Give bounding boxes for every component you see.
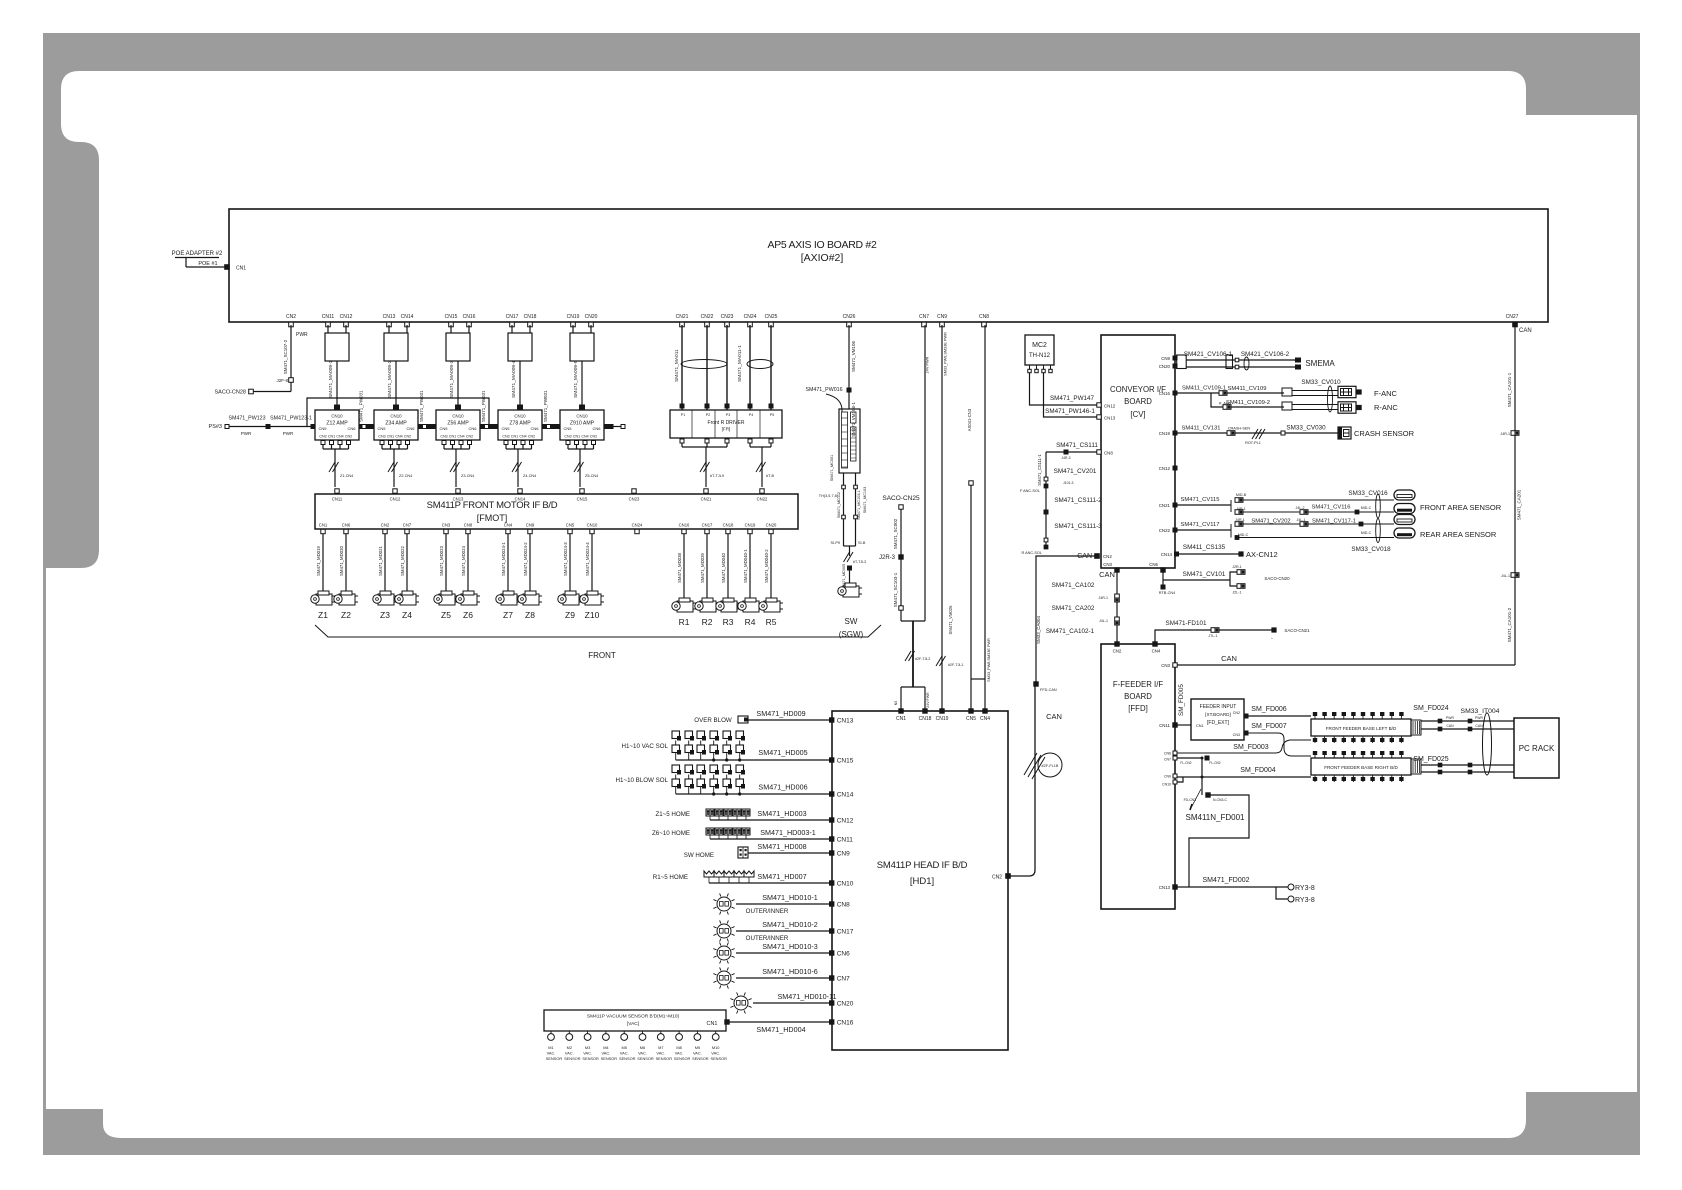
pin CN11 (FFD right)	[1173, 723, 1177, 727]
sensor bar front upper	[1394, 490, 1415, 500]
svg-text:J7L-1: J7L-1	[1209, 634, 1218, 638]
svg-text:SM471_HD010-11: SM471_HD010-11	[778, 992, 837, 1001]
svg-text:CN13: CN13	[1159, 885, 1171, 890]
svg-text:CN3: CN3	[502, 435, 509, 439]
motor Z9	[558, 591, 582, 605]
svg-text:P3: P3	[726, 413, 730, 417]
svg-text:F-FEEDER I/F: F-FEEDER I/F	[1113, 680, 1163, 689]
pin CN3 (FD_EXT)	[1244, 731, 1248, 735]
svg-text:CN26: CN26	[843, 314, 856, 320]
wire AXIO CN pair to AMP4 (SM471_MA009-4)	[511, 325, 513, 333]
svg-text:M8: M8	[676, 1045, 681, 1050]
svg-text:CN2: CN2	[466, 435, 473, 439]
pin CN6 of Z34 AMP	[418, 425, 422, 429]
pin CN19 (AXIO bottom)	[571, 322, 576, 327]
svg-text:Z3-CN4: Z3-CN4	[461, 474, 474, 478]
svg-text:CN2: CN2	[1113, 649, 1122, 654]
svg-text:SM471_PW147: SM471_PW147	[1050, 395, 1095, 402]
wire AXIO CN pair to AMP1 (SM471_MA009-1)	[327, 325, 329, 333]
svg-text:OVER BLOW: OVER BLOW	[694, 717, 732, 724]
wire SM471_HD008 to CN9	[748, 852, 830, 854]
svg-text:SW: SW	[845, 617, 858, 626]
svg-text:CN22: CN22	[701, 314, 714, 320]
svg-text:VAC.: VAC.	[638, 1051, 647, 1056]
svg-text:CN8: CN8	[979, 314, 989, 320]
svg-text:SM421_CV106-1: SM421_CV106-1	[1184, 351, 1233, 358]
pin CN27 (AXIO bottom, CAN)	[1513, 322, 1518, 327]
svg-text:[FR]: [FR]	[722, 427, 731, 432]
svg-text:FFD-CAN: FFD-CAN	[1040, 688, 1057, 692]
svg-text:P1: P1	[681, 413, 685, 417]
svg-text:SM33_CA004: SM33_CA004	[1036, 616, 1041, 645]
svg-text:VAC.: VAC.	[656, 1051, 665, 1056]
svg-text:SM471_CS111-1: SM471_CS111-1	[1037, 454, 1042, 486]
svg-text:VAC.: VAC.	[693, 1051, 702, 1056]
svg-text:SM_FD007: SM_FD007	[1251, 723, 1287, 730]
pin CN12 (HD1 left)	[830, 818, 834, 822]
pin CN13 (AXIO bottom)	[387, 322, 392, 327]
svg-text:SM471_HD010-1: SM471_HD010-1	[762, 893, 818, 902]
svg-text:SM471_PW031: SM471_PW031	[543, 390, 548, 422]
svg-text:CRASH SENSOR: CRASH SENSOR	[1354, 429, 1415, 438]
pin CN12 (AXIO bottom)	[344, 322, 349, 327]
pin CN13 (FFD left-bottom)	[1173, 885, 1177, 889]
svg-text:CN6: CN6	[468, 426, 477, 431]
svg-text:SENSOR: SENSOR	[619, 1056, 636, 1061]
svg-text:SI-P9: SI-P9	[831, 541, 841, 545]
svg-text:SM471_MD024-2: SM471_MD024-2	[523, 542, 528, 576]
svg-text:SM471_CA201: SM471_CA201	[1517, 489, 1522, 520]
svg-text:F-ANC: F-ANC	[1374, 389, 1397, 398]
wire FMOT to motor Z1 (SM471_MD019)	[322, 534, 324, 591]
svg-text:SM471_MD021: SM471_MD021	[378, 546, 383, 576]
svg-text:SM33_PW9,SM33E PWR: SM33_PW9,SM33E PWR	[944, 332, 948, 376]
wire FR outputs to FMOT CN21	[680, 439, 684, 443]
svg-text:SM471_MD112: SM471_MD112	[837, 492, 841, 518]
svg-text:SM471_PW031: SM471_PW031	[419, 390, 424, 422]
svg-text:SM471_SC107-2: SM471_SC107-2	[283, 339, 288, 374]
svg-text:Z10: Z10	[585, 610, 600, 620]
svg-text:CONVEYOR I/F: CONVEYOR I/F	[1110, 385, 1166, 394]
svg-text:F ANC-SOL: F ANC-SOL	[1020, 489, 1040, 493]
pin CN8 (AXIO bottom)	[982, 322, 987, 327]
pin CN26 (AXIO bottom)	[847, 322, 852, 327]
svg-text:M4: M4	[603, 1045, 609, 1050]
amplifier Z34 AMP (U2)	[394, 405, 399, 410]
svg-text:SM471_CA102-1: SM471_CA102-1	[1046, 628, 1095, 635]
board FFD : F-FEEDER I/F BOARD	[1101, 644, 1175, 909]
pin CN21 (AXIO bottom)	[680, 322, 685, 327]
svg-text:J4L-1: J4L-1	[1501, 574, 1510, 578]
svg-text:SM33_PW8,SM33E PWR: SM33_PW8,SM33E PWR	[987, 638, 991, 682]
svg-text:J4L-1: J4L-1	[1099, 619, 1108, 623]
svg-text:SM_FD024: SM_FD024	[1413, 705, 1449, 712]
pin CN9 (HD1 left)	[830, 851, 834, 855]
svg-text:CN14: CN14	[1161, 552, 1173, 557]
connector J4R-1 (CAN)	[1511, 431, 1519, 436]
svg-text:FRONT FEEDER BASE LEFT B/D: FRONT FEEDER BASE LEFT B/D	[1326, 726, 1397, 731]
pin CN16 (HD1 left)	[830, 1020, 834, 1024]
pin CN23 (FMOT top)	[632, 489, 636, 493]
svg-text:CN22: CN22	[1159, 528, 1171, 533]
svg-text:J2L-1: J2L-1	[1233, 591, 1242, 595]
pin CN2 (CV left, CAN)	[1095, 554, 1100, 559]
pin P3 Front R DRIVER	[725, 404, 729, 408]
wire CAN vertical (right)	[1514, 325, 1516, 665]
pin CN14 (AXIO bottom)	[405, 322, 410, 327]
pins CN6/CN7 (FFD right)	[1173, 751, 1177, 755]
motor R3	[716, 598, 740, 612]
svg-text:SM471_MD022: SM471_MD022	[400, 546, 405, 576]
svg-text:N5: N5	[894, 701, 898, 706]
svg-text:CN17: CN17	[837, 929, 854, 936]
board CV : CONVEYOR I/F BOARD	[1101, 335, 1175, 568]
svg-text:CN13: CN13	[453, 497, 464, 502]
svg-text:CN2: CN2	[1103, 554, 1112, 559]
svg-text:SM471_VM106: SM471_VM106	[851, 340, 856, 372]
svg-text:SM471-FD101: SM471-FD101	[1166, 620, 1207, 627]
svg-text:CN2: CN2	[345, 435, 352, 439]
svg-text:SM471_MD024-1: SM471_MD024-1	[501, 542, 506, 576]
svg-text:CN24: CN24	[744, 314, 757, 320]
svg-text:Z1: Z1	[318, 610, 328, 620]
svg-text:CAN: CAN	[1446, 724, 1454, 728]
svg-text:P2: P2	[706, 413, 710, 417]
svg-text:FRONT: FRONT	[588, 651, 616, 660]
svg-text:J2F-8: J2F-8	[276, 378, 288, 383]
pin CN1 (AXIO left)	[225, 265, 230, 270]
svg-text:SENSOR: SENSOR	[710, 1056, 727, 1061]
wire FMOT to motor Z9 (SM471_MD024-3)	[569, 534, 571, 591]
svg-text:CN1: CN1	[573, 435, 580, 439]
pin CN15 (FMOT top)	[580, 489, 584, 493]
pin CN18 (AXIO bottom)	[528, 322, 533, 327]
svg-text:VAC.: VAC.	[711, 1051, 720, 1056]
wire POE to CN1	[185, 258, 187, 268]
bottom pin squares of Z12 AMP	[321, 441, 325, 445]
svg-text:CN7: CN7	[1164, 758, 1171, 762]
wire SM_FD003 (crossing hop)	[1177, 740, 1311, 753]
svg-text:CN3: CN3	[319, 435, 326, 439]
pin CN12 (FMOT top)	[393, 489, 397, 493]
svg-text:J101-3: J101-3	[1063, 481, 1073, 485]
wire AMP4 CN6 to AMP5 CN5 (SM471_PW031)	[546, 426, 556, 428]
svg-text:SW HOME: SW HOME	[684, 852, 714, 859]
svg-text:FEEDER INPUT: FEEDER INPUT	[1200, 704, 1237, 710]
bottom pin squares of Z910 AMP	[566, 441, 570, 445]
svg-text:CAN: CAN	[1519, 328, 1532, 334]
pin CN15 (HD1 left)	[830, 758, 834, 762]
svg-text:CN19: CN19	[936, 716, 949, 722]
board AXIO#2 : AP5 AXIS IO BOARD #2	[229, 209, 1548, 322]
wire SM471_CV101 fork	[1163, 572, 1230, 580]
svg-text:#T-TJL3: #T-TJL3	[853, 560, 866, 564]
motor Z1	[311, 591, 335, 605]
svg-text:SM471_MD038: SM471_MD038	[677, 553, 682, 583]
svg-text:RY3-8: RY3-8	[1295, 885, 1315, 892]
svg-text:Z12 AMP: Z12 AMP	[326, 421, 348, 427]
connector SACO-CN28	[249, 389, 254, 394]
svg-text:SM471_MA011-1: SM471_MA011-1	[737, 345, 743, 382]
pin CN5 of Z56 AMP	[432, 425, 436, 429]
wire SM471_HD005 to CN15	[675, 753, 677, 761]
wire SACO-CN25 down	[900, 509, 902, 621]
svg-text:PWR: PWR	[296, 332, 308, 338]
svg-text:CN1: CN1	[328, 435, 335, 439]
svg-text:CN4: CN4	[1152, 649, 1161, 654]
svg-text:SM33_CV010: SM33_CV010	[1301, 379, 1341, 386]
svg-text:CN4: CN4	[980, 716, 990, 722]
svg-text:Z7: Z7	[503, 610, 513, 620]
svg-text:CN7: CN7	[403, 523, 412, 528]
svg-text:CN13: CN13	[383, 314, 396, 320]
svg-text:SM471_PW123-1: SM471_PW123-1	[270, 416, 312, 422]
pin CN19 (HD1 top)	[940, 709, 944, 713]
svg-text:[FD_EXT]: [FD_EXT]	[1207, 720, 1230, 726]
svg-text:R4: R4	[745, 617, 756, 627]
svg-text:SM471_FD002: SM471_FD002	[1202, 877, 1249, 884]
svg-text:CRASH-SEN: CRASH-SEN	[1228, 427, 1251, 431]
motor R1	[672, 598, 696, 612]
svg-text:SM471_CA101-1: SM471_CA101-1	[1507, 372, 1512, 407]
svg-text:SM471_MC001: SM471_MC001	[830, 455, 834, 481]
svg-text:CN1: CN1	[449, 435, 456, 439]
wire AMP2 CN6 to AMP3 CN5 (SM471_PW031)	[422, 426, 432, 428]
svg-text:CN23: CN23	[629, 497, 640, 502]
svg-text:Z9: Z9	[565, 610, 575, 620]
pin CN22 (FMOT top)	[760, 489, 764, 493]
wire SM411N_FD001 drop	[1201, 758, 1203, 795]
svg-text:CN15: CN15	[445, 314, 458, 320]
svg-text:CN16: CN16	[1159, 391, 1171, 396]
pin CN8 (HD1 left)	[830, 902, 834, 906]
svg-text:SM33_CV016: SM33_CV016	[1348, 490, 1388, 497]
svg-text:Z6: Z6	[463, 610, 473, 620]
svg-text:CN5: CN5	[319, 426, 328, 431]
svg-text:CN7: CN7	[837, 976, 850, 983]
wires right feeder to PC RACK	[1421, 764, 1514, 766]
svg-text:CN21: CN21	[701, 497, 712, 502]
svg-text:SM_FD003: SM_FD003	[1233, 744, 1269, 751]
svg-text:CN27: CN27	[1506, 314, 1519, 320]
svg-text:24V PWR: 24V PWR	[926, 692, 930, 708]
svg-text:CN2: CN2	[404, 435, 411, 439]
svg-text:M3: M3	[585, 1045, 590, 1050]
wire CRASH SENSOR	[1177, 432, 1338, 434]
pin CN12 (CV left)	[1097, 403, 1101, 407]
svg-text:SM471_CA202: SM471_CA202	[1052, 605, 1095, 612]
svg-text:AP5 AXIS IO BOARD #2: AP5 AXIS IO BOARD #2	[768, 239, 877, 251]
servo driver block	[839, 409, 860, 473]
svg-text:SM471_HD003-1: SM471_HD003-1	[760, 828, 816, 837]
motor Z7	[496, 591, 520, 605]
svg-text:CN16: CN16	[463, 314, 476, 320]
wire SM471_FD002 to ORY3-8	[1177, 886, 1288, 888]
svg-text:CN1: CN1	[706, 1021, 717, 1027]
svg-text:CN6: CN6	[837, 951, 850, 958]
svg-text:SACO-CN28: SACO-CN28	[215, 390, 246, 396]
svg-text:CN4: CN4	[581, 435, 588, 439]
wire AXIO CN7 long drop	[924, 325, 926, 621]
wire SM471-FD101	[1155, 630, 1211, 642]
svg-text:SM471_CA101-2: SM471_CA101-2	[1507, 607, 1512, 642]
svg-text:CN4: CN4	[336, 435, 343, 439]
svg-text:CN11: CN11	[322, 314, 335, 320]
svg-text:N-CN3-C: N-CN3-C	[1213, 798, 1227, 802]
svg-text:PWR: PWR	[1446, 716, 1454, 720]
connector F-ANC plug	[1338, 386, 1356, 397]
svg-text:[CV]: [CV]	[1130, 410, 1145, 419]
svg-text:CN17: CN17	[702, 523, 713, 528]
wire FMOT to motor R5 (SM471_MD040-2)	[770, 534, 772, 598]
svg-text:SM471_MA009-2: SM471_MA009-2	[387, 360, 393, 398]
svg-text:SENSOR: SENSOR	[674, 1056, 691, 1061]
wire AMP3 CN6 to AMP4 CN5 (SM471_PW031)	[484, 426, 494, 428]
wire Z12 AMP output merge to FMOT	[323, 448, 349, 450]
svg-text:SENSOR: SENSOR	[564, 1056, 581, 1061]
svg-text:SM471_HD010-2: SM471_HD010-2	[762, 920, 818, 929]
svg-text:#T-TJL9: #T-TJL9	[710, 474, 724, 478]
svg-text:BOARD: BOARD	[1124, 397, 1152, 406]
svg-text:SI-B: SI-B	[858, 541, 866, 545]
svg-text:[VAC]: [VAC]	[627, 1021, 639, 1027]
wire FRONT AREA SENSOR	[1177, 504, 1231, 506]
svg-text:CN9: CN9	[837, 851, 850, 858]
wire Z34 AMP output merge to FMOT	[382, 448, 408, 450]
svg-text:CN9: CN9	[526, 523, 535, 528]
lamp SM471_HD010-2	[717, 924, 731, 938]
svg-text:SM33_IT004: SM33_IT004	[1461, 708, 1500, 715]
svg-text:CN10: CN10	[452, 414, 464, 419]
svg-text:CN21: CN21	[1159, 503, 1171, 508]
pin P5 Front R DRIVER	[769, 404, 773, 408]
svg-text:FRONT FEEDER BASE RIGHT B/D: FRONT FEEDER BASE RIGHT B/D	[1324, 765, 1398, 770]
svg-text:SM471_MA009-1: SM471_MA009-1	[328, 360, 334, 398]
svg-text:FL-CN2: FL-CN2	[1209, 761, 1220, 765]
svg-text:CN1: CN1	[511, 435, 518, 439]
pin CN18 (HD1 top)	[923, 709, 927, 713]
svg-text:CN12: CN12	[1159, 466, 1171, 471]
wire FMOT to motor Z4 (SM471_MD022)	[406, 534, 408, 591]
svg-text:CN8: CN8	[464, 523, 473, 528]
wire AXIO CN pair to AMP5 (SM471_MA009-5)	[572, 325, 574, 333]
svg-text:R-ANC: R-ANC	[1374, 403, 1398, 412]
pin CN7 (HD1 left)	[830, 976, 834, 980]
svg-text:MID-B: MID-B	[1236, 493, 1247, 497]
svg-text:CN1: CN1	[387, 435, 394, 439]
svg-text:CN10: CN10	[390, 414, 402, 419]
svg-text:SM471_PW016: SM471_PW016	[805, 387, 842, 393]
motor Z4	[395, 591, 419, 605]
svg-text:CN20: CN20	[585, 314, 598, 320]
board FD_EXT : FEEDER INPUT XT.BOARD	[1177, 724, 1191, 726]
svg-text:CN6: CN6	[1149, 562, 1158, 567]
svg-text:CN6: CN6	[342, 523, 351, 528]
wire FMOT to motor R3 (SM471_MD040)	[727, 534, 729, 598]
wire AMP1 CN6 to AMP2 CN5 (SM471_PW031)	[363, 426, 370, 428]
wire AXIO CN9 to HD1 CN19	[941, 325, 943, 709]
wire SM_FD007 (crossing)	[1248, 733, 1311, 756]
svg-text:CN15: CN15	[837, 758, 854, 765]
svg-text:J2R-1: J2R-1	[1232, 565, 1242, 569]
svg-text:MC2: MC2	[1032, 342, 1047, 349]
VAC sensor pins M1~M10	[550, 1031, 552, 1034]
svg-text:SM471_HD004: SM471_HD004	[756, 1025, 805, 1034]
wire FMOT to motor R4 (SM471_MD040-1)	[749, 534, 751, 598]
svg-text:SM471_MD020: SM471_MD020	[339, 546, 344, 576]
pins CN9/CN10 (FFD right)	[1173, 774, 1177, 778]
wire staircase to CN13	[1189, 795, 1249, 887]
svg-text:Z78 AMP: Z78 AMP	[509, 421, 531, 427]
svg-text:Front R DRIVER: Front R DRIVER	[708, 420, 745, 426]
motor Z2	[334, 591, 358, 605]
svg-text:SM471_MD039: SM471_MD039	[700, 553, 705, 583]
svg-text:CN10: CN10	[837, 881, 854, 888]
pin CN20 (HD1 left)	[830, 1001, 834, 1005]
svg-text:CN5: CN5	[440, 426, 449, 431]
svg-text:CN10: CN10	[514, 414, 526, 419]
pin CN5 (HD1 top)	[969, 709, 973, 713]
svg-text:SM471_MD040-2: SM471_MD040-2	[764, 549, 769, 583]
cable ellipse SM471_MA011-1	[747, 360, 773, 369]
pin CN21 (FMOT top)	[704, 489, 708, 493]
wires servo block to SW motor	[843, 473, 845, 546]
svg-text:(SGW): (SGW)	[839, 630, 864, 639]
svg-text:CN1: CN1	[896, 716, 906, 722]
svg-text:CN10: CN10	[331, 414, 343, 419]
motor Z5	[434, 591, 458, 605]
wire SM_FD006	[1248, 715, 1311, 717]
svg-text:SM411P VACUUM SENSOR B'D(M1~M1: SM411P VACUUM SENSOR B'D(M1~M10)	[587, 1014, 680, 1020]
svg-text:SM_FD004: SM_FD004	[1240, 767, 1276, 774]
svg-text:SM411P FRONT MOTOR IF B/D: SM411P FRONT MOTOR IF B/D	[427, 500, 558, 511]
svg-text:SM471_HD006: SM471_HD006	[758, 783, 807, 792]
svg-text:P5: P5	[770, 413, 774, 417]
svg-text:FL-CN2: FL-CN2	[1180, 761, 1191, 765]
svg-text:Z34 AMP: Z34 AMP	[385, 421, 407, 427]
svg-text:SM471_HD008: SM471_HD008	[757, 842, 806, 851]
wire FMOT to motor Z8 (SM471_MD024-2)	[529, 534, 531, 591]
board Front R DRIVER [FR]	[670, 410, 782, 438]
svg-text:R ANC-SOL: R ANC-SOL	[1022, 551, 1042, 555]
lamp SM471_HD010-1	[717, 897, 731, 911]
svg-text:CN3: CN3	[1103, 562, 1112, 567]
svg-text:R1: R1	[679, 617, 690, 627]
pin CN5 of Z910 AMP	[556, 425, 560, 429]
svg-text:CN12: CN12	[837, 818, 854, 825]
wire CN2 PWR chain	[290, 325, 292, 378]
pin CN24 (AXIO bottom)	[748, 322, 753, 327]
svg-text:CN3: CN3	[440, 435, 447, 439]
svg-text:CN6: CN6	[406, 426, 415, 431]
motor Z8	[518, 591, 542, 605]
svg-text:CN1: CN1	[319, 523, 328, 528]
svg-text:R5: R5	[766, 617, 777, 627]
wire AXIO CN8 to HD1 CN4/CN5	[984, 325, 986, 679]
svg-text:M10: M10	[712, 1045, 720, 1050]
svg-text:H1~10 BLOW SOL: H1~10 BLOW SOL	[616, 777, 669, 784]
pin CN4 (FFD top)	[1153, 642, 1157, 646]
motor R4	[738, 598, 762, 612]
svg-text:CN2: CN2	[590, 435, 597, 439]
svg-text:CN3: CN3	[378, 435, 385, 439]
svg-text:CN4: CN4	[519, 435, 526, 439]
pin CN2 (FFD top)	[1115, 642, 1119, 646]
svg-text:CN5: CN5	[566, 523, 575, 528]
svg-text:OUTER/INNER: OUTER/INNER	[746, 935, 789, 942]
svg-text:SM471_MA009-5: SM471_MA009-5	[573, 360, 579, 398]
svg-text:Z56 AMP: Z56 AMP	[447, 421, 469, 427]
